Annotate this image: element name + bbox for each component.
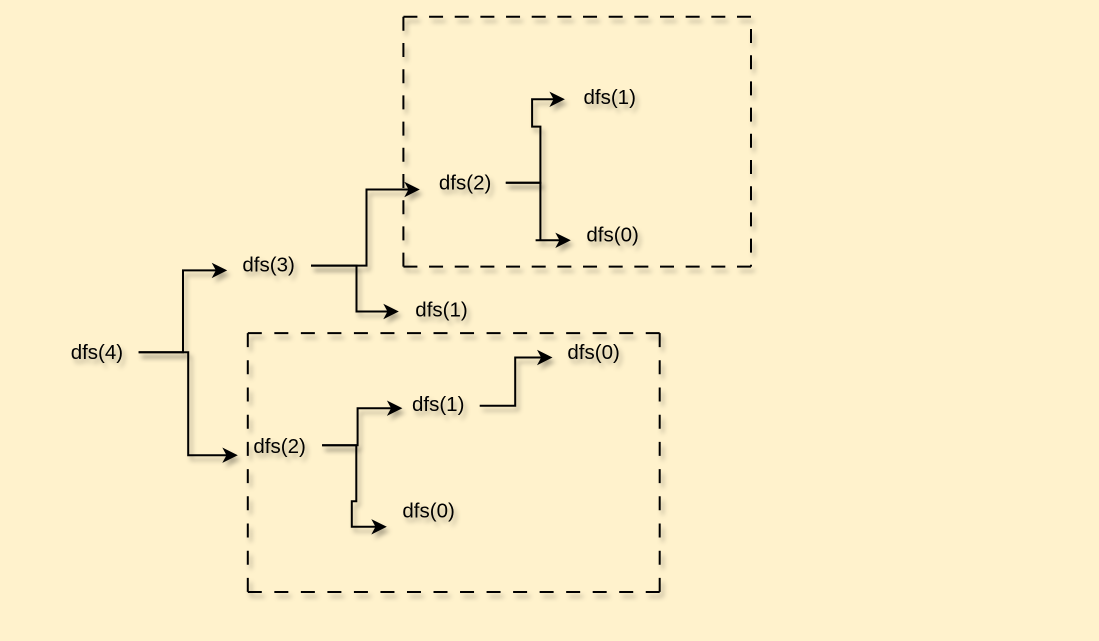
node dfs(0) bottom box lower xyxy=(402,500,454,523)
node dfs(0) top box xyxy=(586,224,638,247)
dashed group box: top (around dfs(2) subtree) xyxy=(403,17,751,267)
svg-text:dfs(4): dfs(4) xyxy=(71,341,123,364)
svg-text:dfs(1): dfs(1) xyxy=(415,298,467,321)
wire dfs(3) -> dfs(2) top xyxy=(311,182,420,266)
svg-text:dfs(0): dfs(0) xyxy=(402,500,454,523)
svg-text:dfs(0): dfs(0) xyxy=(586,224,638,247)
node dfs(0) bottom box upper-right xyxy=(567,341,619,364)
dashed group box: bottom (around dfs(2) subtree) xyxy=(248,333,660,592)
node dfs(4) xyxy=(71,341,123,364)
svg-text:dfs(2): dfs(2) xyxy=(439,171,491,194)
wire dfs(3) -> dfs(1) xyxy=(311,266,399,320)
svg-text:dfs(1): dfs(1) xyxy=(412,393,464,416)
svg-text:dfs(2): dfs(2) xyxy=(253,435,305,458)
node dfs(1) bottom box xyxy=(412,393,464,416)
wire dfs(2) top -> dfs(1) top xyxy=(506,92,565,183)
node dfs(1) child of dfs(3) xyxy=(415,298,467,321)
wire dfs(2) top -> dfs(0) top xyxy=(506,183,571,248)
svg-text:dfs(1): dfs(1) xyxy=(584,86,636,109)
svg-text:dfs(3): dfs(3) xyxy=(242,254,294,277)
wire dfs(4) -> dfs(3) xyxy=(139,263,228,353)
wire dfs(1) bottom -> dfs(0) upper-right xyxy=(480,350,553,406)
node dfs(3) xyxy=(242,254,294,277)
wire dfs(2) bottom -> dfs(1) bottom xyxy=(322,401,402,446)
node dfs(1) top box xyxy=(584,86,636,109)
wire dfs(2) bottom -> dfs(0) bottom xyxy=(322,445,387,534)
node dfs(2) top box xyxy=(439,171,491,194)
svg-text:dfs(0): dfs(0) xyxy=(567,341,619,364)
node dfs(2) bottom box xyxy=(253,435,305,458)
wire dfs(4) -> dfs(2) bottom xyxy=(139,352,238,463)
